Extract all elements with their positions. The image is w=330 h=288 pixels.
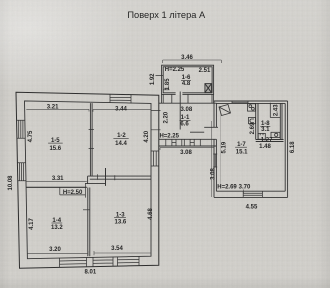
svg-text:15.1: 15.1: [236, 149, 248, 155]
svg-text:3.08: 3.08: [211, 168, 217, 180]
svg-text:3.54: 3.54: [111, 246, 123, 252]
svg-text:1-3: 1-3: [116, 213, 125, 219]
svg-text:1.27: 1.27: [261, 137, 273, 143]
svg-text:Н=2.25: Н=2.25: [165, 67, 185, 73]
svg-text:3.20: 3.20: [49, 247, 61, 253]
svg-text:3.1: 3.1: [261, 127, 270, 133]
svg-text:1.85: 1.85: [165, 78, 171, 90]
svg-text:13.6: 13.6: [115, 220, 127, 226]
svg-text:2.20: 2.20: [163, 111, 169, 123]
svg-text:3.08: 3.08: [180, 150, 192, 156]
svg-text:4.75: 4.75: [28, 130, 34, 142]
svg-text:3.31: 3.31: [52, 176, 64, 182]
svg-text:3.21: 3.21: [47, 104, 59, 110]
svg-text:10.08: 10.08: [8, 175, 14, 191]
svg-text:4.8: 4.8: [182, 81, 191, 87]
svg-text:6.6: 6.6: [180, 122, 189, 128]
svg-text:Н=2.69: Н=2.69: [217, 184, 237, 190]
svg-text:5.19: 5.19: [222, 141, 228, 153]
svg-text:3.44: 3.44: [115, 106, 127, 112]
svg-text:1.92: 1.92: [150, 73, 156, 85]
svg-text:Поверх 1 літера А: Поверх 1 літера А: [127, 10, 206, 20]
svg-text:4.17: 4.17: [29, 218, 35, 230]
svg-text:Н=2.25: Н=2.25: [159, 133, 179, 139]
svg-text:2.43: 2.43: [273, 104, 279, 116]
svg-text:4.55: 4.55: [246, 204, 258, 210]
svg-text:14.4: 14.4: [115, 141, 127, 147]
svg-text:3.46: 3.46: [181, 55, 193, 61]
svg-text:1.48: 1.48: [259, 144, 271, 150]
svg-text:2.51: 2.51: [199, 68, 211, 74]
svg-text:3.70: 3.70: [239, 184, 251, 190]
svg-text:Н=2.50: Н=2.50: [63, 190, 83, 196]
svg-text:4.68: 4.68: [148, 208, 154, 220]
svg-text:13.2: 13.2: [51, 225, 63, 231]
svg-text:15.6: 15.6: [49, 146, 61, 152]
svg-text:8.01: 8.01: [85, 270, 97, 276]
svg-text:3.08: 3.08: [181, 107, 193, 113]
svg-text:2.69: 2.69: [250, 122, 256, 134]
svg-text:4.20: 4.20: [144, 130, 150, 142]
svg-text:6.18: 6.18: [290, 141, 296, 153]
svg-text:1-1: 1-1: [181, 115, 190, 121]
